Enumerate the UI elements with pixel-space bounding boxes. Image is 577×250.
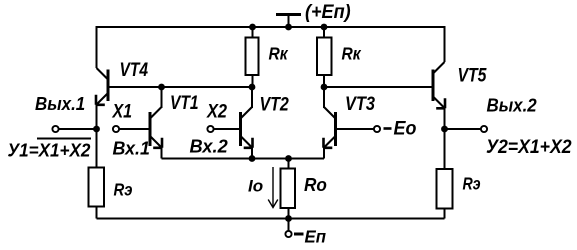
label -Ep minus dash xyxy=(294,233,304,236)
svg-text:X2: X2 xyxy=(206,100,227,122)
wire Rk right top lead xyxy=(323,27,325,38)
wire VT3 emitter lead xyxy=(323,147,325,159)
wire Re right bottom lead xyxy=(444,209,446,219)
power terminal bar xyxy=(276,13,301,16)
svg-text:VT2: VT2 xyxy=(260,93,289,115)
terminal circle X2 xyxy=(207,126,213,132)
power terminal (+Ep) stem xyxy=(288,15,290,28)
terminal circle Y2 xyxy=(481,126,487,132)
wire VT4 emitter to Re left via output node xyxy=(96,104,98,168)
terminal circle -Ep xyxy=(285,231,291,237)
label -Eo minus dash xyxy=(384,127,392,130)
overline of Y1 equation xyxy=(37,138,91,140)
resistor Rk right xyxy=(317,38,332,76)
terminal circle X1 xyxy=(113,126,119,132)
svg-text:VT1: VT1 xyxy=(170,91,199,113)
wire VT5 emitter to Re right via output node xyxy=(444,108,446,169)
wire base bus node under Rk right to VT5 xyxy=(324,86,433,88)
transistor VT5 xyxy=(433,62,445,108)
svg-text:Rо: Rо xyxy=(304,174,327,195)
current Io arrow xyxy=(268,167,278,208)
svg-text:Rк: Rк xyxy=(342,44,363,64)
svg-text:У1=X1+X2: У1=X1+X2 xyxy=(8,140,91,161)
node dot top rail at power stem xyxy=(285,24,292,31)
svg-text:Rэ: Rэ xyxy=(463,175,481,194)
wire base bus VT4 to node under Rk left xyxy=(108,86,252,88)
transistor VT1 xyxy=(150,107,162,148)
svg-text:Eп: Eп xyxy=(305,226,327,246)
node dot output Y2 xyxy=(441,126,448,133)
wire Ro bottom lead xyxy=(288,208,290,219)
transistor VT4 xyxy=(97,68,109,105)
transistor VT3 xyxy=(324,107,336,148)
wire VT1 collector lead xyxy=(161,87,163,108)
wire input X1 to VT1 base xyxy=(119,128,150,130)
wire top rail with VT4/VT5 collector leads xyxy=(97,27,445,68)
svg-text:Eо: Eо xyxy=(394,117,417,139)
node dot VT2 emitter on rail xyxy=(249,155,256,162)
svg-text:VT4: VT4 xyxy=(120,58,149,80)
resistor Re right xyxy=(437,169,453,209)
node dot output Y1 xyxy=(93,126,100,133)
wire VT1 emitter lead xyxy=(161,147,163,159)
resistor Rk left xyxy=(246,38,259,76)
svg-text:У2=X1+X2: У2=X1+X2 xyxy=(486,135,572,157)
svg-text:X1: X1 xyxy=(112,100,132,122)
wire Rk left bottom lead xyxy=(252,75,254,87)
wire input X2 to VT2 base xyxy=(214,128,241,130)
transistor VT2 xyxy=(241,107,253,148)
node dot bottom rail -Ep xyxy=(285,215,292,222)
svg-text:Rэ: Rэ xyxy=(114,180,133,199)
resistor Ro xyxy=(281,169,296,209)
node dot top rail at Rk left xyxy=(249,24,256,31)
node dot Ro top on rail xyxy=(285,155,292,162)
svg-text:Вых.1: Вых.1 xyxy=(35,93,85,114)
svg-text:(+Eп): (+Eп) xyxy=(305,1,351,23)
node dot top rail at Rk right xyxy=(321,24,328,31)
wire -Ep terminal stem xyxy=(288,219,290,231)
node dot VT2 collector / Rk left xyxy=(249,84,256,91)
svg-text:Iо: Iо xyxy=(248,177,263,196)
svg-text:Rк: Rк xyxy=(269,44,290,64)
wire common emitter rail xyxy=(162,158,325,160)
wire output Y1 terminal xyxy=(59,128,97,130)
wire Rk left top lead xyxy=(252,27,254,38)
svg-text:VT3: VT3 xyxy=(345,93,375,115)
resistor Re left xyxy=(89,168,105,207)
terminal circle Y1 xyxy=(52,126,58,132)
svg-text:VT5: VT5 xyxy=(458,64,488,86)
wire Ro top lead xyxy=(288,159,290,169)
node dot VT1 collector / VT4 base xyxy=(158,84,165,91)
node dot VT3 collector / Rk right xyxy=(321,84,328,91)
terminal circle -Eo xyxy=(374,126,380,132)
wire VT2 emitter lead xyxy=(251,147,253,159)
wire Rk right bottom lead xyxy=(323,75,325,87)
svg-text:Вх.2: Вх.2 xyxy=(190,137,228,157)
wire VT3 base to -Eo terminal xyxy=(336,128,374,130)
wire output Y2 terminal xyxy=(445,128,481,130)
wire VT2 collector lead xyxy=(251,87,253,108)
svg-text:Вых.2: Вых.2 xyxy=(487,95,537,116)
wire VT3 collector lead xyxy=(323,87,325,108)
svg-text:Вх.1: Вх.1 xyxy=(113,138,150,158)
wire bottom rail xyxy=(97,218,445,220)
wire Re left bottom lead xyxy=(96,207,98,219)
